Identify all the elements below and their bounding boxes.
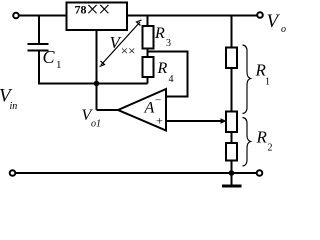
svg-text:3: 3	[166, 38, 171, 49]
svg-text:1: 1	[56, 59, 62, 71]
svg-text:R: R	[256, 128, 268, 147]
svg-text:C: C	[43, 47, 56, 67]
svg-text:in: in	[10, 101, 18, 112]
svg-text:o: o	[281, 24, 286, 35]
svg-text:4: 4	[169, 74, 174, 85]
svg-text:−: −	[155, 95, 161, 107]
svg-text:×: ×	[86, 0, 98, 22]
svg-text:o1: o1	[91, 119, 101, 130]
svg-text:2: 2	[268, 143, 273, 154]
svg-text:××: ××	[121, 43, 136, 58]
svg-text:1: 1	[265, 77, 270, 88]
svg-text:78: 78	[75, 3, 87, 17]
svg-text:A: A	[144, 100, 155, 117]
svg-text:R: R	[154, 25, 165, 42]
svg-text:R: R	[157, 60, 168, 77]
svg-text:×: ×	[98, 0, 110, 22]
svg-text:+: +	[156, 114, 163, 128]
